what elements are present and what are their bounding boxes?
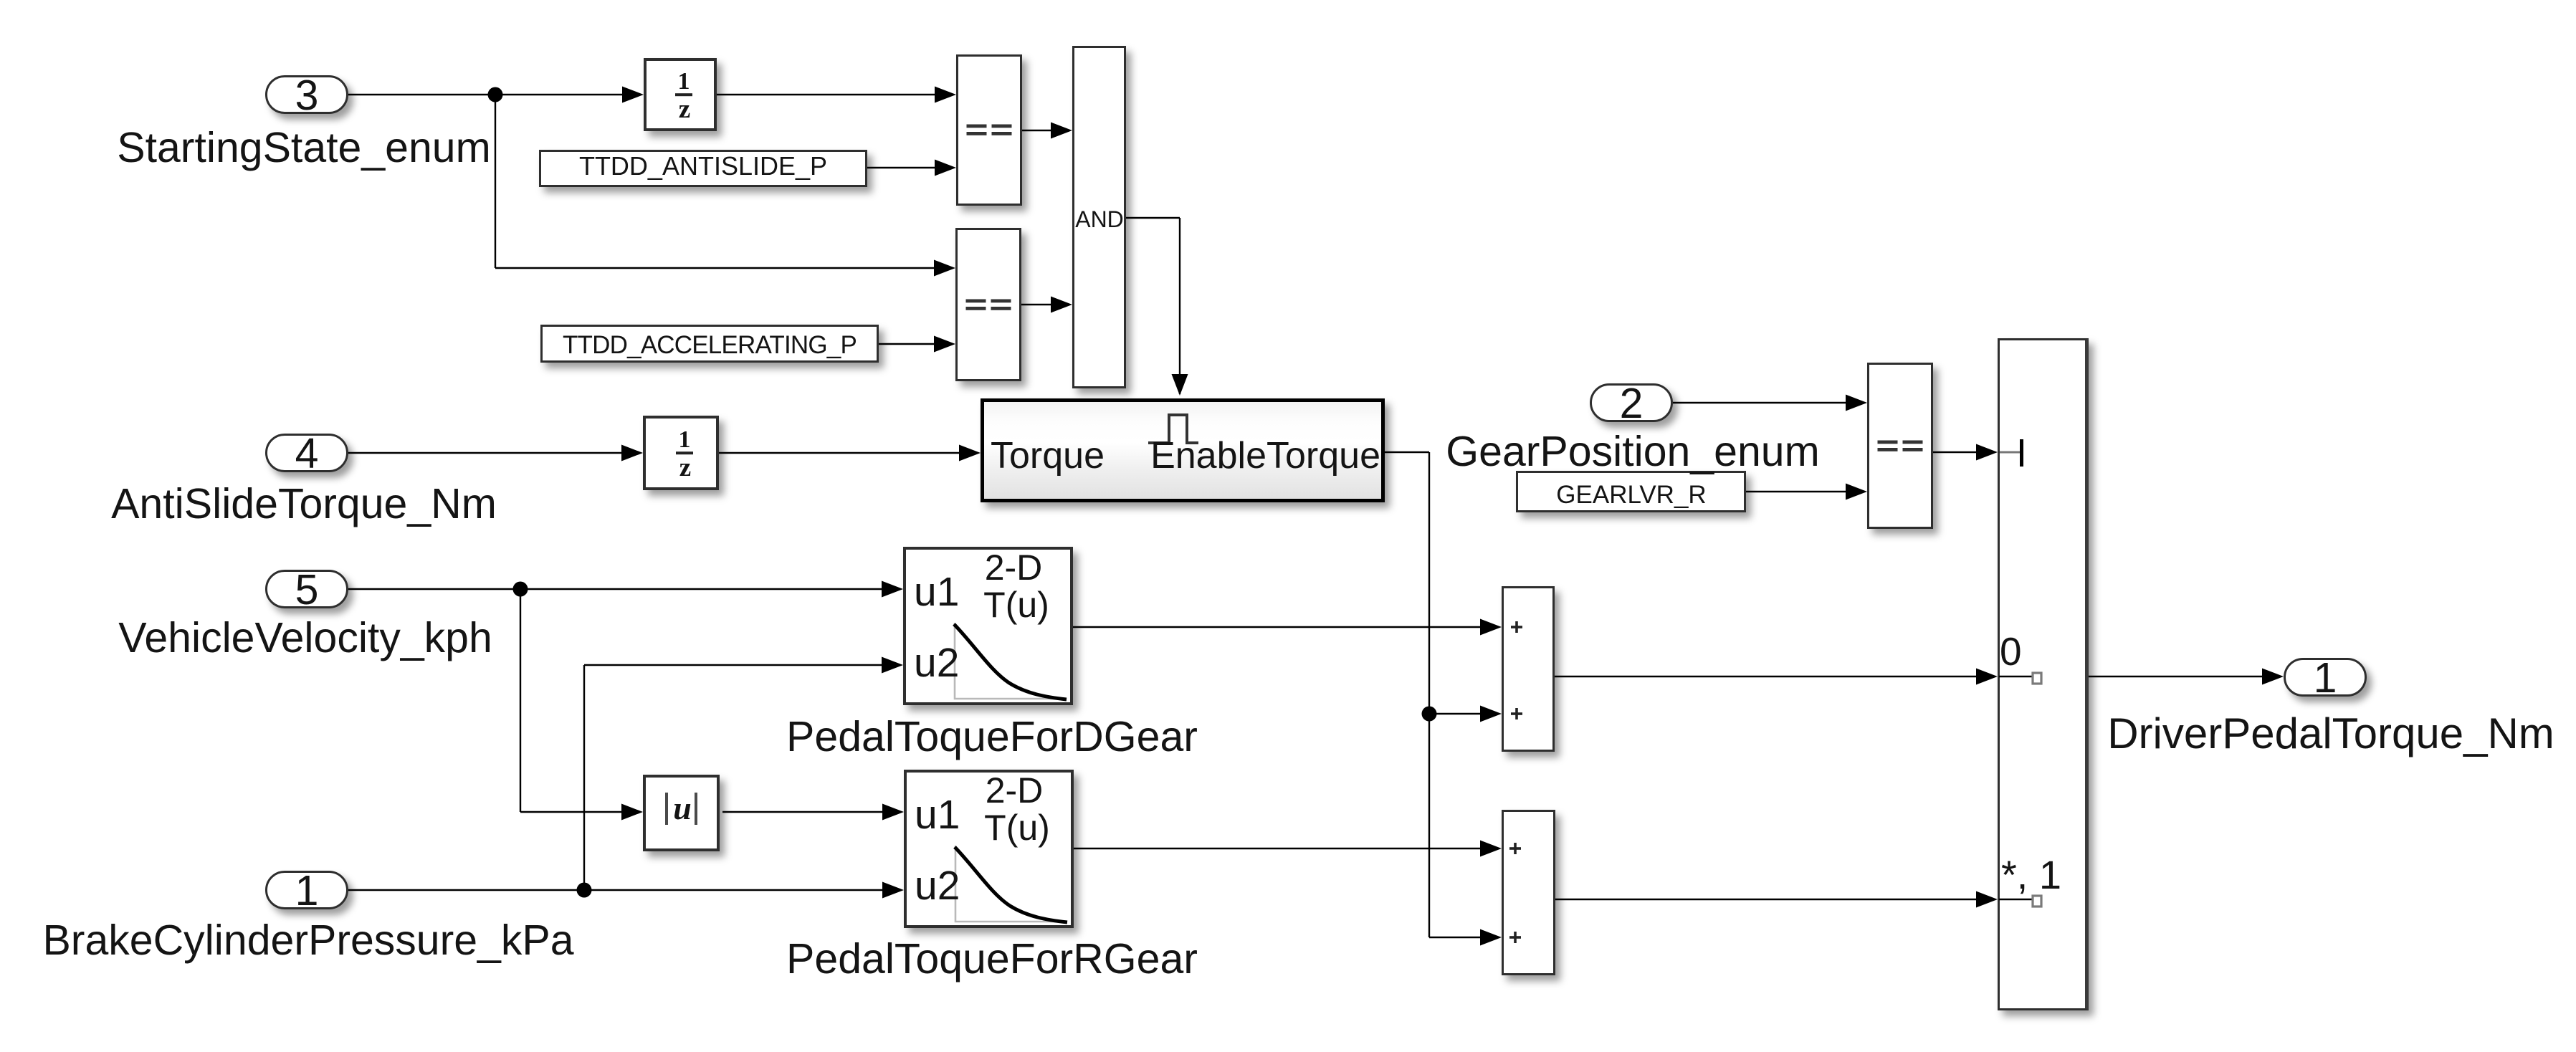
svg-text:PedalToqueForRGear: PedalToqueForRGear [786,935,1198,982]
svg-text:DriverPedalTorque_Nm: DriverPedalTorque_Nm [2107,709,2554,757]
svg-text:0: 0 [2000,629,2022,674]
svg-text:z: z [679,95,690,124]
svg-text:TTDD_ACCELERATING_P: TTDD_ACCELERATING_P [563,331,857,359]
svg-text:GEARLVR_R: GEARLVR_R [1556,481,1706,509]
svg-text:AND: AND [1075,206,1124,232]
svg-text:BrakeCylinderPressure_kPa: BrakeCylinderPressure_kPa [42,917,573,964]
svg-text:2: 2 [1620,380,1644,427]
svg-text:T(u): T(u) [983,585,1049,625]
svg-text:AntiSlideTorque_Nm: AntiSlideTorque_Nm [111,480,497,527]
svg-text:TTDD_ANTISLIDE_P: TTDD_ANTISLIDE_P [579,151,827,181]
svg-text:StartingState_enum: StartingState_enum [117,124,491,171]
svg-text:u1: u1 [914,569,959,615]
svg-text:T(u): T(u) [984,808,1050,848]
svg-text:1: 1 [679,426,691,453]
svg-text:1: 1 [678,68,690,95]
svg-text:GearPosition_enum: GearPosition_enum [1446,428,1819,475]
svg-text:u: u [673,790,692,826]
svg-text:1: 1 [2314,654,2337,702]
svg-text:*, 1: *, 1 [2001,852,2061,897]
svg-text:VehicleVelocity_kph: VehicleVelocity_kph [118,614,492,661]
svg-text:Torque: Torque [991,435,1105,477]
svg-text:2-D: 2-D [986,770,1044,810]
svg-text:u1: u1 [915,792,960,838]
svg-text:PedalToqueForDGear: PedalToqueForDGear [786,713,1198,760]
svg-text:3: 3 [295,72,319,119]
svg-text:2-D: 2-D [985,547,1043,588]
svg-text:4: 4 [295,430,319,477]
svg-text:u2: u2 [915,863,960,909]
svg-text:5: 5 [295,566,319,613]
svg-text:z: z [679,453,691,482]
svg-text:EnableTorque: EnableTorque [1150,435,1380,477]
svg-text:u2: u2 [914,640,959,686]
svg-text:1: 1 [295,867,319,914]
